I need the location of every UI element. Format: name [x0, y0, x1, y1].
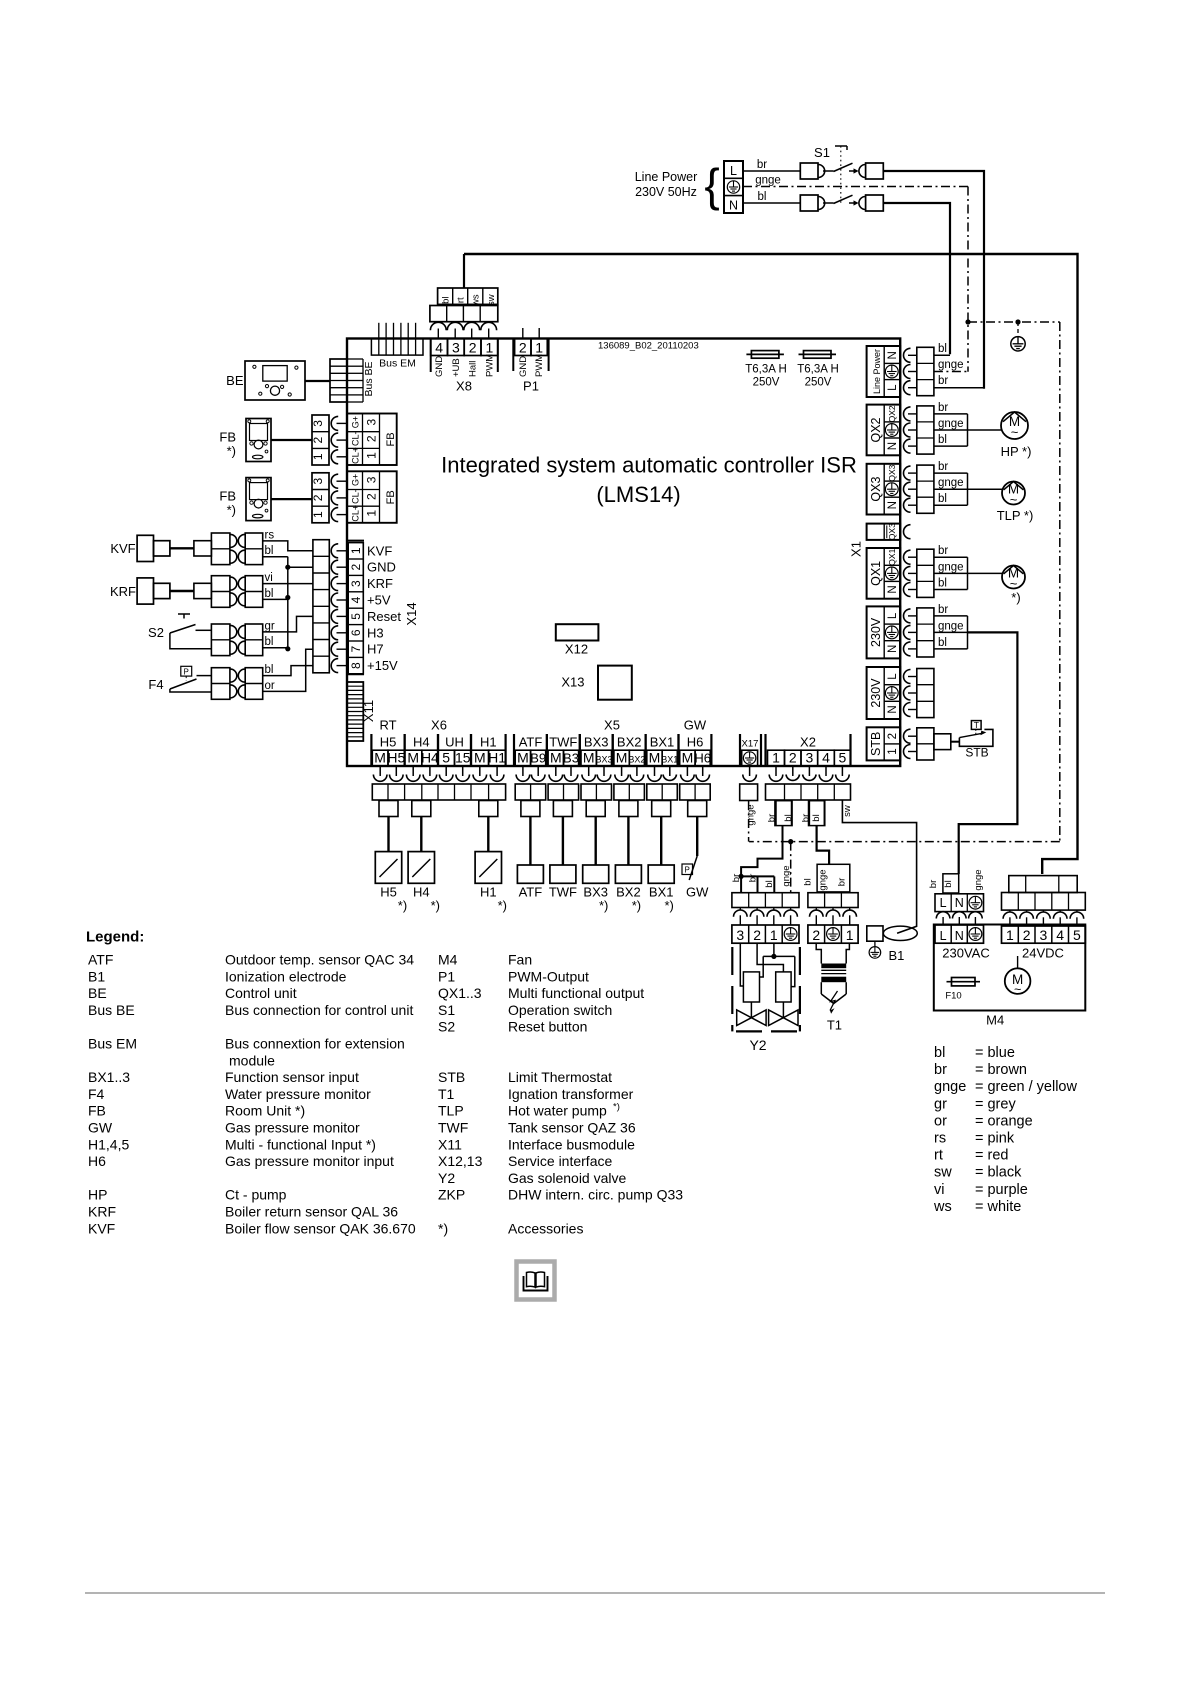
svg-text:TLP *): TLP *) — [997, 508, 1034, 523]
svg-text:TWF: TWF — [549, 735, 577, 750]
svg-text:Accessories: Accessories — [508, 1220, 583, 1236]
svg-text:QX1: QX1 — [869, 561, 883, 586]
svg-text:P1: P1 — [438, 968, 455, 984]
svg-text:4: 4 — [435, 340, 443, 356]
svg-text:8: 8 — [349, 662, 363, 669]
svg-text:gnge: gnge — [938, 418, 964, 430]
svg-text:KRF: KRF — [367, 576, 393, 591]
svg-text:*): *) — [1011, 590, 1020, 605]
svg-text:BE: BE — [226, 373, 244, 388]
svg-text:STB: STB — [438, 1069, 465, 1085]
svg-text:BX1: BX1 — [650, 735, 675, 750]
svg-text:H4: H4 — [421, 750, 439, 766]
svg-text:br: br — [938, 402, 948, 414]
svg-text:Outdoor temp. sensor QAC 34: Outdoor temp. sensor QAC 34 — [225, 952, 414, 968]
svg-text:Room Unit *): Room Unit *) — [225, 1103, 305, 1119]
svg-text:N: N — [887, 501, 899, 509]
svg-text:230V 50Hz: 230V 50Hz — [635, 185, 697, 199]
svg-text:= red: = red — [975, 1148, 1008, 1164]
svg-text:or: or — [934, 1113, 947, 1129]
svg-text:S2: S2 — [438, 1019, 455, 1035]
svg-text:KRF: KRF — [110, 584, 136, 599]
svg-text:4: 4 — [1056, 927, 1064, 943]
svg-text:ATF: ATF — [519, 735, 543, 750]
svg-text:gnge: gnge — [938, 477, 964, 489]
svg-text:T1: T1 — [827, 1018, 842, 1033]
svg-text:module: module — [229, 1052, 275, 1068]
svg-text:5: 5 — [349, 613, 363, 620]
svg-text:Function sensor input: Function sensor input — [225, 1069, 359, 1085]
svg-text:*): *) — [665, 898, 674, 913]
svg-text:~: ~ — [1011, 425, 1019, 440]
svg-text:S2: S2 — [148, 625, 164, 640]
svg-text:3: 3 — [365, 476, 379, 483]
svg-text:1: 1 — [365, 510, 379, 517]
svg-text:PWM: PWM — [534, 354, 545, 377]
svg-text:H4: H4 — [413, 735, 430, 750]
svg-text:= orange: = orange — [975, 1113, 1033, 1129]
svg-text:UH: UH — [445, 735, 464, 750]
svg-text:S1: S1 — [438, 1002, 455, 1018]
svg-text:P: P — [685, 866, 690, 875]
svg-text:gnge: gnge — [818, 869, 829, 890]
svg-text:4: 4 — [822, 750, 830, 766]
svg-text:gnge: gnge — [934, 1079, 966, 1095]
svg-text:X17: X17 — [742, 739, 759, 750]
svg-text:TWF: TWF — [438, 1120, 468, 1136]
svg-text:L: L — [730, 164, 737, 178]
svg-text:N: N — [887, 645, 899, 653]
svg-text:ATF: ATF — [519, 885, 543, 900]
svg-text:L: L — [887, 673, 899, 680]
svg-text:CL+: CL+ — [351, 505, 361, 522]
svg-text:H1,4,5: H1,4,5 — [88, 1136, 129, 1152]
svg-text:bl: bl — [811, 814, 822, 821]
svg-text:bl: bl — [938, 637, 947, 649]
svg-text:1: 1 — [1006, 927, 1014, 943]
svg-text:QX2: QX2 — [869, 417, 883, 442]
svg-text:br: br — [928, 880, 939, 888]
svg-text:N: N — [887, 705, 899, 713]
svg-text:gnge: gnge — [755, 175, 781, 187]
svg-text:B1: B1 — [88, 968, 105, 984]
svg-text:3: 3 — [806, 750, 814, 766]
svg-text:CL+: CL+ — [351, 447, 361, 464]
svg-text:X6: X6 — [431, 718, 447, 733]
svg-text:bl: bl — [764, 880, 775, 887]
svg-text:bl: bl — [938, 434, 947, 446]
svg-text:X12,13: X12,13 — [438, 1153, 483, 1169]
svg-text:H1: H1 — [480, 885, 497, 900]
svg-text:230V: 230V — [869, 678, 883, 708]
svg-text:M: M — [374, 750, 386, 766]
svg-text:N: N — [955, 929, 964, 943]
svg-text:ws: ws — [471, 294, 482, 307]
svg-text:X13: X13 — [561, 675, 584, 690]
svg-text:bl: bl — [758, 191, 767, 203]
svg-text:vi: vi — [934, 1182, 944, 1198]
svg-text:250V: 250V — [753, 377, 780, 389]
svg-text:M4: M4 — [438, 952, 458, 968]
svg-text:BX3: BX3 — [595, 755, 612, 765]
svg-text:PWM: PWM — [484, 354, 495, 377]
svg-text:N: N — [887, 442, 899, 450]
svg-text:5: 5 — [442, 750, 450, 766]
svg-text:CL-: CL- — [351, 432, 361, 447]
svg-text:1: 1 — [486, 340, 494, 356]
svg-text:2: 2 — [753, 927, 761, 943]
svg-text:bl: bl — [265, 588, 274, 600]
svg-text:bl: bl — [943, 880, 954, 887]
svg-text:X12: X12 — [565, 642, 588, 657]
svg-text:T6,3A H: T6,3A H — [797, 364, 839, 376]
svg-text:H5: H5 — [387, 750, 405, 766]
svg-text:= pink: = pink — [975, 1131, 1015, 1147]
svg-text:2: 2 — [311, 436, 325, 443]
svg-text:M: M — [682, 750, 694, 766]
svg-text:br: br — [837, 878, 848, 886]
svg-text:G+: G+ — [351, 474, 361, 486]
svg-text:gnge: gnge — [938, 359, 964, 371]
svg-text:3: 3 — [1040, 927, 1048, 943]
svg-text:br: br — [747, 874, 758, 882]
svg-text:br: br — [938, 461, 948, 473]
svg-text:250V: 250V — [805, 377, 832, 389]
svg-text:bl: bl — [265, 664, 274, 676]
svg-text:PWM-Output: PWM-Output — [508, 968, 589, 984]
svg-text:Y2: Y2 — [749, 1037, 766, 1053]
svg-text:Legend:: Legend: — [86, 929, 144, 946]
svg-text:br: br — [938, 604, 948, 616]
svg-text:br: br — [934, 1062, 947, 1078]
svg-text:QX1..3: QX1..3 — [438, 985, 482, 1001]
svg-text:Reset button: Reset button — [508, 1019, 587, 1035]
svg-text:(LMS14): (LMS14) — [596, 482, 680, 507]
svg-text:QX1: QX1 — [887, 548, 897, 565]
svg-text:Integrated system automatic co: Integrated system automatic controller I… — [441, 453, 857, 478]
svg-text:BX1..3: BX1..3 — [88, 1069, 130, 1085]
svg-text:TLP: TLP — [438, 1103, 464, 1119]
svg-text:Ionization electrode: Ionization electrode — [225, 968, 347, 984]
svg-text:bl: bl — [938, 578, 947, 590]
svg-text:gnge: gnge — [938, 620, 964, 632]
svg-text:3: 3 — [311, 478, 325, 485]
svg-text:QX2: QX2 — [887, 405, 897, 422]
svg-text:FB: FB — [219, 489, 236, 504]
svg-text:24VDC: 24VDC — [1022, 946, 1064, 961]
svg-text:rs: rs — [265, 529, 275, 541]
svg-text:BX3: BX3 — [584, 735, 609, 750]
svg-text:2: 2 — [1023, 927, 1031, 943]
svg-text:3: 3 — [349, 580, 363, 587]
svg-text:Y2: Y2 — [438, 1170, 455, 1186]
svg-text:N: N — [955, 896, 964, 910]
svg-text:+UB: +UB — [451, 358, 462, 377]
svg-text:~: ~ — [1010, 576, 1018, 591]
svg-text:*): *) — [227, 444, 236, 459]
svg-text:2: 2 — [365, 493, 379, 500]
svg-text:1: 1 — [772, 750, 780, 766]
svg-text:Bus EM: Bus EM — [379, 358, 416, 370]
svg-text:FB: FB — [385, 490, 397, 504]
svg-text:bl: bl — [265, 545, 274, 557]
svg-text:Operation switch: Operation switch — [508, 1002, 612, 1018]
svg-text:KRF: KRF — [88, 1204, 116, 1220]
svg-text:H6: H6 — [687, 735, 704, 750]
svg-text:2: 2 — [887, 733, 899, 739]
svg-text:2: 2 — [789, 750, 797, 766]
svg-text:bl: bl — [265, 636, 274, 648]
svg-text:2: 2 — [311, 494, 325, 501]
svg-text:= green / yellow: = green / yellow — [975, 1079, 1077, 1095]
svg-text:BX2: BX2 — [617, 735, 642, 750]
svg-text:GND: GND — [434, 356, 445, 377]
svg-text:rt: rt — [934, 1148, 943, 1164]
svg-text:TWF: TWF — [549, 885, 577, 900]
svg-text:Boiler return sensor QAL 36: Boiler return sensor QAL 36 — [225, 1204, 398, 1220]
svg-text:2: 2 — [812, 927, 820, 943]
svg-text:= grey: = grey — [975, 1096, 1016, 1112]
svg-text:GND: GND — [518, 356, 529, 377]
svg-text:X8: X8 — [456, 379, 472, 394]
svg-text:RT: RT — [379, 718, 396, 733]
svg-text:ATF: ATF — [88, 952, 113, 968]
svg-text:+15V: +15V — [367, 658, 398, 673]
svg-text:1: 1 — [365, 452, 379, 459]
svg-text:Gas solenoid valve: Gas solenoid valve — [508, 1170, 627, 1186]
svg-text:Ct - pump: Ct - pump — [225, 1187, 287, 1203]
svg-text:KVF: KVF — [88, 1220, 115, 1236]
svg-text:GW: GW — [684, 718, 707, 733]
svg-text:X2: X2 — [800, 735, 816, 750]
svg-text:*): *) — [498, 898, 507, 913]
svg-text:2: 2 — [365, 435, 379, 442]
svg-text:Interface busmodule: Interface busmodule — [508, 1136, 635, 1152]
svg-text:M: M — [616, 750, 628, 766]
svg-text:H5: H5 — [380, 885, 397, 900]
svg-text:M: M — [550, 750, 562, 766]
svg-text:L: L — [940, 929, 947, 943]
svg-text:Bus connection for control uni: Bus connection for control unit — [225, 1002, 413, 1018]
svg-text:BX1: BX1 — [661, 755, 678, 765]
svg-text:GW: GW — [88, 1120, 113, 1136]
svg-text:2: 2 — [519, 340, 527, 356]
svg-text:ws: ws — [933, 1199, 952, 1215]
svg-text:H1: H1 — [480, 735, 497, 750]
svg-text:H5: H5 — [380, 735, 397, 750]
svg-text:sw: sw — [934, 1165, 952, 1181]
svg-text:T1: T1 — [438, 1086, 455, 1102]
svg-text:STB: STB — [869, 732, 883, 756]
svg-text:*): *) — [632, 898, 641, 913]
svg-text:M: M — [649, 750, 661, 766]
svg-text:rt: rt — [456, 297, 467, 303]
svg-text:6: 6 — [349, 629, 363, 636]
svg-text:BE: BE — [88, 985, 107, 1001]
svg-text:Bus BE: Bus BE — [88, 1002, 135, 1018]
svg-text:X5: X5 — [604, 718, 620, 733]
svg-text:~: ~ — [1014, 983, 1021, 997]
svg-text:KVF: KVF — [110, 541, 135, 556]
svg-text:bl: bl — [934, 1045, 945, 1061]
svg-text:T6,3A H: T6,3A H — [745, 364, 787, 376]
svg-text:STB: STB — [965, 746, 988, 760]
svg-text:Boiler flow sensor QAK 36.670: Boiler flow sensor QAK 36.670 — [225, 1220, 416, 1236]
svg-text:1: 1 — [311, 511, 325, 518]
svg-text:Ignation transformer: Ignation transformer — [508, 1086, 634, 1102]
svg-text:= black: = black — [975, 1165, 1022, 1181]
svg-text:gnge: gnge — [938, 561, 964, 573]
svg-text:~: ~ — [1010, 492, 1018, 507]
svg-text:L: L — [940, 896, 947, 910]
svg-text:ZKP: ZKP — [438, 1187, 465, 1203]
svg-text:F10: F10 — [945, 990, 961, 1001]
svg-text:Line Power: Line Power — [872, 349, 882, 394]
svg-text:FB: FB — [88, 1103, 106, 1119]
svg-text:Gas pressure monitor input: Gas pressure monitor input — [225, 1153, 394, 1169]
svg-text:M: M — [407, 750, 419, 766]
svg-text:Multi - functional Input *): Multi - functional Input *) — [225, 1136, 376, 1152]
svg-text:M: M — [474, 750, 486, 766]
svg-text:bl: bl — [441, 296, 452, 303]
svg-text:3: 3 — [365, 418, 379, 425]
svg-text:H4: H4 — [413, 885, 430, 900]
svg-text:H7: H7 — [367, 642, 384, 657]
svg-text:Multi functional output: Multi functional output — [508, 985, 644, 1001]
svg-text:GW: GW — [686, 885, 709, 900]
svg-text:X1: X1 — [849, 541, 864, 557]
svg-text:QX3: QX3 — [887, 523, 897, 540]
svg-text:gnge: gnge — [781, 865, 792, 886]
svg-text:vi: vi — [265, 572, 273, 584]
svg-text:sw: sw — [842, 805, 853, 817]
svg-text:Limit Thermostat: Limit Thermostat — [508, 1069, 612, 1085]
svg-text:N: N — [887, 351, 899, 359]
svg-text:br: br — [938, 375, 948, 387]
svg-text:2: 2 — [469, 340, 477, 356]
svg-text:T: T — [974, 720, 979, 730]
svg-text:M: M — [583, 750, 595, 766]
svg-text:rs: rs — [934, 1131, 946, 1147]
svg-text:*): *) — [431, 898, 440, 913]
svg-text:gnge: gnge — [746, 804, 757, 825]
svg-text:H3: H3 — [367, 625, 384, 640]
svg-text:*): *) — [227, 503, 236, 518]
svg-text:X14: X14 — [404, 602, 419, 625]
svg-text:3: 3 — [311, 420, 325, 427]
svg-text:3: 3 — [736, 927, 744, 943]
svg-text:2: 2 — [349, 564, 363, 571]
svg-text:Bus EM: Bus EM — [88, 1036, 137, 1052]
svg-text:5: 5 — [1073, 927, 1081, 943]
svg-text:QX3: QX3 — [869, 477, 883, 502]
svg-text:1: 1 — [349, 547, 363, 554]
svg-text:= white: = white — [975, 1199, 1021, 1215]
svg-text:H6: H6 — [88, 1153, 106, 1169]
svg-text:= purple: = purple — [975, 1182, 1028, 1198]
svg-text:M4: M4 — [986, 1013, 1004, 1028]
svg-text:F4: F4 — [88, 1086, 105, 1102]
svg-text:Line Power: Line Power — [635, 170, 698, 184]
svg-text:P1: P1 — [523, 379, 539, 394]
svg-text:gr: gr — [265, 620, 275, 632]
svg-text:P: P — [184, 668, 189, 677]
svg-text:1: 1 — [535, 340, 543, 356]
svg-text:136089_B02_20110203: 136089_B02_20110203 — [598, 341, 699, 352]
svg-text:S1: S1 — [814, 145, 830, 160]
svg-text:Bus connextion for extension: Bus connextion for extension — [225, 1036, 405, 1052]
svg-text:+5V: +5V — [367, 593, 391, 608]
svg-text:*): *) — [398, 898, 407, 913]
svg-text:HP: HP — [88, 1187, 107, 1203]
svg-text:br: br — [757, 159, 767, 171]
svg-text:F4: F4 — [148, 677, 163, 692]
svg-text:H1: H1 — [488, 750, 506, 766]
svg-text:Bus BE: Bus BE — [363, 361, 375, 396]
svg-text:{: { — [704, 159, 719, 211]
svg-text:B1: B1 — [889, 948, 905, 963]
svg-text:1: 1 — [311, 453, 325, 460]
svg-text:bl: bl — [803, 878, 814, 885]
svg-text:CL-: CL- — [351, 489, 361, 504]
svg-text:N: N — [729, 199, 738, 213]
svg-text:230V: 230V — [869, 617, 883, 647]
svg-text:Control unit: Control unit — [225, 985, 297, 1001]
svg-text:1: 1 — [846, 927, 854, 943]
svg-text:*): *) — [613, 1102, 620, 1113]
svg-text:Hot water pump: Hot water pump — [508, 1103, 607, 1119]
svg-text:N: N — [887, 585, 899, 593]
svg-text:5: 5 — [839, 750, 847, 766]
svg-text:Fan: Fan — [508, 952, 532, 968]
svg-text:1: 1 — [770, 927, 778, 943]
svg-text:H6: H6 — [694, 751, 711, 766]
svg-text:br: br — [938, 545, 948, 557]
svg-text:gr: gr — [934, 1096, 947, 1112]
svg-text:L: L — [887, 612, 899, 619]
svg-text:L: L — [887, 384, 899, 391]
svg-text:bl: bl — [938, 343, 947, 355]
svg-text:GND: GND — [367, 560, 396, 575]
svg-text:= blue: = blue — [975, 1045, 1015, 1061]
svg-text:1: 1 — [887, 748, 899, 754]
svg-text:HP *): HP *) — [1001, 444, 1032, 459]
svg-text:Water pressure monitor: Water pressure monitor — [225, 1086, 371, 1102]
svg-text:br: br — [731, 874, 742, 882]
svg-text:X11: X11 — [438, 1136, 462, 1152]
svg-text:QX3: QX3 — [887, 464, 897, 481]
svg-text:Gas pressure monitor: Gas pressure monitor — [225, 1120, 360, 1136]
svg-text:B3: B3 — [563, 751, 579, 766]
svg-text:15: 15 — [455, 750, 471, 766]
svg-text:230VAC: 230VAC — [942, 946, 989, 961]
svg-text:M: M — [517, 750, 529, 766]
svg-text:Hall: Hall — [468, 361, 479, 377]
svg-text:= brown: = brown — [975, 1062, 1027, 1078]
svg-text:Reset: Reset — [367, 609, 401, 624]
svg-text:X11: X11 — [361, 700, 376, 722]
svg-text:*): *) — [599, 898, 608, 913]
svg-text:7: 7 — [349, 646, 363, 653]
svg-text:B9: B9 — [530, 751, 546, 766]
svg-text:FB: FB — [219, 430, 236, 445]
svg-text:sw: sw — [486, 294, 497, 306]
svg-text:gnge: gnge — [973, 869, 984, 890]
svg-text:bl: bl — [938, 493, 947, 505]
svg-text:or: or — [265, 680, 275, 692]
svg-text:Service interface: Service interface — [508, 1153, 612, 1169]
svg-text:DHW intern. circ. pump Q33: DHW intern. circ. pump Q33 — [508, 1187, 683, 1203]
